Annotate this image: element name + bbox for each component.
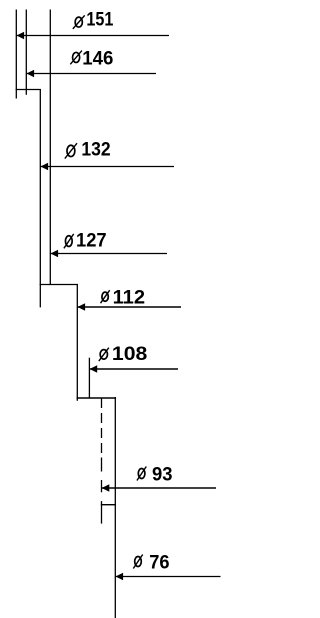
svg-text:127: 127 (76, 231, 107, 252)
svg-text:132: 132 (81, 140, 110, 161)
svg-text:146: 146 (82, 48, 113, 69)
svg-text:93: 93 (152, 464, 173, 485)
svg-text:151: 151 (86, 9, 113, 30)
svg-text:108: 108 (112, 344, 147, 365)
svg-text:112: 112 (113, 287, 146, 308)
svg-text:76: 76 (149, 552, 169, 573)
